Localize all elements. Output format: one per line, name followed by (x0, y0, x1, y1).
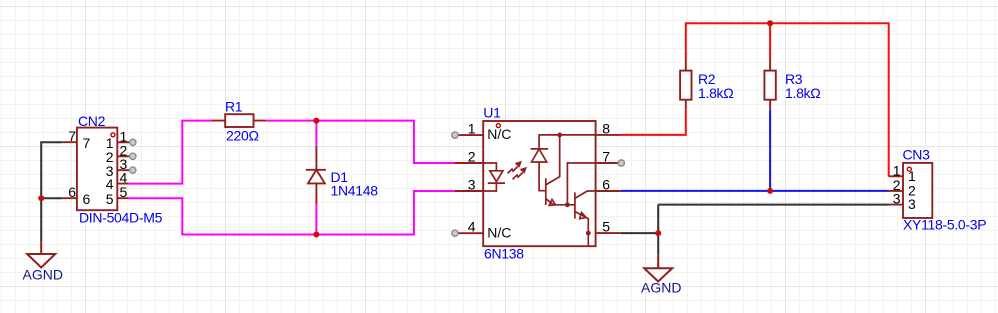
svg-text:7: 7 (602, 149, 610, 165)
svg-text:6: 6 (602, 177, 610, 193)
ground AGND left (27, 242, 55, 268)
wire magenta D1 top lead net (315, 121, 317, 146)
CN3 pin names inside (908, 168, 916, 212)
svg-text:5: 5 (106, 191, 114, 207)
svg-text:3: 3 (908, 196, 916, 212)
U1 internal junction Q1e-Q2b (565, 202, 570, 207)
U1 N/C pads (452, 132, 625, 236)
resistor R2 (680, 59, 691, 110)
U1 photodiode (531, 149, 549, 191)
svg-text:1N4148: 1N4148 (331, 183, 379, 199)
U1 pin7 internal link (567, 163, 595, 205)
svg-text:7: 7 (68, 128, 76, 144)
svg-text:4: 4 (468, 219, 476, 235)
svg-text:6: 6 (68, 184, 76, 200)
svg-text:AGND: AGND (641, 279, 681, 295)
svg-text:CN3: CN3 (903, 147, 931, 163)
wire black U1 pin5 net (621, 205, 889, 255)
U1 internal rail junction (557, 133, 562, 138)
svg-text:AGND: AGND (23, 267, 63, 283)
wire net2 magenta: R1 to D1 to U1 pin2 (266, 121, 454, 163)
svg-text:7: 7 (83, 135, 91, 151)
diode D1 (306, 146, 326, 204)
junction dot node AGND-left (38, 195, 44, 201)
svg-text:N/C: N/C (487, 224, 511, 240)
U1 LED arrows (508, 162, 527, 180)
wire net1 black: CN2 pin6 branch (41, 197, 62, 199)
ground AGND right (644, 255, 672, 282)
svg-text:R1: R1 (225, 99, 243, 115)
svg-text:220Ω: 220Ω (226, 128, 259, 144)
svg-text:6N138: 6N138 (484, 246, 524, 262)
wire red pin8 to R2 (621, 110, 686, 135)
svg-text:N/C: N/C (487, 126, 511, 142)
U1 pin1 indicator (496, 124, 500, 128)
wire net3 magenta: CN2 pin5 to D1 bottom to U1 pin3 (128, 191, 455, 235)
svg-text:1.8kΩ: 1.8kΩ (785, 85, 820, 101)
svg-text:XY118-5.0-3P: XY118-5.0-3P (903, 217, 986, 233)
svg-text:1: 1 (468, 121, 476, 137)
svg-text:5: 5 (120, 184, 128, 200)
U1 transistor Q2 (567, 191, 595, 246)
svg-text:1: 1 (893, 162, 901, 178)
U1 internal LED (483, 163, 505, 191)
CN2 pin1 indicator (111, 133, 115, 137)
CN2 N/C pads (130, 139, 136, 173)
junction dot D1 top (313, 118, 319, 124)
CN2 pin numbers outside right (120, 128, 128, 200)
resistor R3 (764, 59, 775, 110)
svg-text:2: 2 (468, 149, 476, 165)
svg-text:3: 3 (468, 177, 476, 193)
wire net1 black: CN2 pin7 to AGND (41, 142, 62, 242)
junction dot D1 bottom (313, 232, 319, 238)
U1 internal top rail (539, 135, 596, 149)
U1 transistor Q1 (546, 135, 568, 206)
connector CN2 (62, 128, 130, 211)
svg-text:4: 4 (120, 170, 128, 186)
CN3 pin1 indicator (907, 167, 911, 171)
svg-text:U1: U1 (483, 105, 501, 121)
svg-text:1.8kΩ: 1.8kΩ (698, 85, 733, 101)
U1 pin numbers left (468, 121, 476, 235)
junction dot blue net (767, 188, 773, 194)
svg-text:1: 1 (908, 168, 916, 184)
wire net2 magenta: CN2 pin4 - R1 (128, 121, 212, 184)
wire magenta D1 bottom lead net (315, 204, 317, 235)
U1 pin numbers right (602, 120, 610, 234)
U1 internal junction Q2e-pin5 (586, 231, 591, 236)
svg-text:DIN-504D-M5: DIN-504D-M5 (79, 209, 163, 225)
svg-text:CN2: CN2 (78, 113, 106, 129)
junction dot rail R3 (767, 20, 773, 26)
svg-text:3: 3 (893, 191, 901, 207)
svg-text:4: 4 (106, 176, 114, 192)
wire red R2 top to rail (686, 23, 889, 176)
CN2 pin names inside right (106, 135, 114, 207)
resistor R1 (212, 114, 266, 127)
wire red R3 top (769, 23, 771, 59)
svg-text:5: 5 (602, 219, 610, 235)
junction dot pin5 net (655, 230, 661, 236)
optocoupler U1 (455, 121, 621, 246)
wire blue R3 bottom (769, 110, 771, 191)
connector CN3 (889, 163, 933, 218)
CN3 pin numbers outside (893, 162, 901, 206)
wire blue U1 pin6 to CN3 pin2 (621, 190, 889, 192)
svg-text:6: 6 (83, 191, 91, 207)
svg-text:8: 8 (602, 120, 610, 136)
